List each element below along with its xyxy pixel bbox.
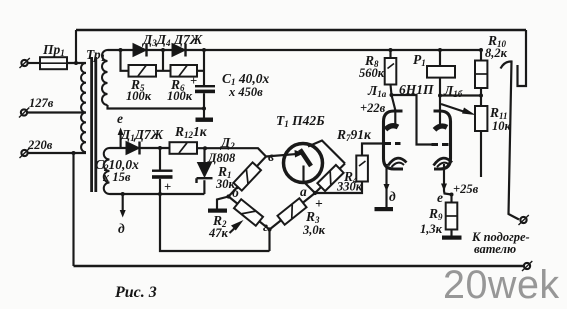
- svg-text:Рис. 3: Рис. 3: [114, 284, 157, 301]
- wire e arrow up: [118, 128, 124, 149]
- resistor R6: [171, 65, 198, 77]
- wire LV bottom tap: [110, 193, 205, 195]
- wire HV rail y50: [108, 49, 482, 51]
- resistor R4: [317, 165, 343, 191]
- wire R5 left drop: [121, 50, 129, 71]
- tube L1a grid: [385, 142, 401, 145]
- terminal 220v: [20, 148, 30, 158]
- ground C1: [196, 118, 214, 122]
- tube L1b cathode inner arc: [437, 163, 450, 167]
- resistor R8 leads: [391, 50, 392, 95]
- wire D1 to junction: [140, 147, 170, 149]
- transistor T1 emitter with arrow: [266, 150, 304, 158]
- svg-text:Д808: Д808: [207, 151, 236, 165]
- arrow R11 wiper: [441, 104, 476, 115]
- resistor R9: [446, 203, 458, 230]
- wire 127v tap: [27, 111, 86, 113]
- resistor R5: [129, 65, 157, 77]
- wire C2 bottom lead: [159, 179, 161, 194]
- wire R9 top lead: [450, 195, 452, 203]
- node a dot: [313, 191, 317, 195]
- wire inner return bottom: [160, 194, 270, 251]
- transformer Tr1 primary winding: [81, 63, 86, 152]
- ground at node b: [208, 197, 229, 213]
- svg-text:д: д: [118, 221, 125, 236]
- node R8 rail: [389, 48, 393, 52]
- svg-text:+22в: +22в: [360, 101, 386, 115]
- wire R4 corner to node a: [315, 164, 345, 194]
- resistor R12: [170, 142, 198, 154]
- wire La cathode lead with arrow: [384, 164, 390, 207]
- wire C1 bottom lead: [203, 93, 205, 117]
- terminal 127v: [19, 108, 29, 118]
- node relay rail: [438, 48, 442, 52]
- wire rail left drop to fuse node: [75, 30, 77, 63]
- wire R7 top to grid La: [362, 144, 384, 156]
- tube L1a envelope: [384, 111, 404, 169]
- svg-text:100к: 100к: [167, 89, 193, 103]
- transformer Tr1 secondary HV winding: [102, 50, 107, 105]
- svg-text:е: е: [437, 190, 443, 205]
- wire anode Lb to R10 junction: [440, 94, 481, 96]
- zener D2: [197, 148, 213, 183]
- terminal heater bottom: [522, 261, 532, 271]
- resistor R10: [475, 61, 487, 89]
- wire node a to R7 bottom: [315, 182, 362, 194]
- tube L1b anode: [435, 126, 448, 130]
- svg-text:R9: R9: [428, 206, 443, 222]
- node b dot: [226, 194, 230, 198]
- wire relay leads: [439, 50, 441, 126]
- wire bridge arm g-a: [270, 193, 316, 230]
- node d-arrow junction: [121, 192, 125, 196]
- resistor R11: [475, 106, 487, 131]
- svg-text:10к: 10к: [492, 119, 512, 133]
- capacitor C1: [195, 85, 215, 93]
- node D3 anode branch: [119, 48, 123, 52]
- wire HV loop bottom: [108, 105, 205, 109]
- svg-text:R791к: R791к: [336, 127, 372, 143]
- svg-text:127в: 127в: [29, 96, 54, 110]
- svg-text:R121к: R121к: [174, 124, 208, 140]
- ground cathode La: [375, 207, 394, 211]
- terminal mains-top: [20, 58, 30, 68]
- node R10 rail: [479, 48, 483, 52]
- svg-text:Д1Д7Ж: Д1Д7Ж: [119, 127, 164, 143]
- wire R10 top lead: [480, 50, 482, 61]
- resistor R3 (bridge arm g-a): [277, 198, 306, 224]
- node D1-C2 junction: [158, 146, 162, 150]
- svg-text:+25в: +25в: [453, 182, 479, 196]
- arrow R2 wiper: [230, 220, 244, 233]
- transistor T1 circle: [284, 144, 323, 183]
- node anode Lb tap: [438, 94, 442, 98]
- svg-text:д: д: [389, 189, 396, 204]
- tube L1a cathode inner arc: [392, 163, 405, 167]
- tube L1a anode: [386, 126, 399, 130]
- wire R9 bottom lead: [450, 230, 452, 236]
- transistor T1 base bar: [300, 150, 311, 167]
- node R10-R11 junction: [479, 94, 483, 98]
- wire C2 top lead: [159, 148, 161, 170]
- node D2 top: [203, 146, 207, 150]
- transformer Tr1 secondary LV winding: [104, 148, 110, 194]
- svg-text:Р1: Р1: [413, 52, 426, 68]
- relay contact P1 moving arm: [501, 61, 520, 219]
- wire terminal to fuse: [28, 62, 40, 64]
- resistor R2 (bridge arm b-g): [234, 199, 263, 226]
- svg-text:+: +: [315, 196, 323, 211]
- tube L1b envelope: [434, 111, 451, 169]
- ground R9: [442, 236, 462, 240]
- svg-text:Л1б: Л1б: [443, 83, 463, 99]
- wire d arrow down: [120, 194, 126, 218]
- wire fuse to transformer primary: [67, 62, 86, 64]
- diode D4: [172, 44, 186, 57]
- svg-text:е: е: [117, 111, 123, 126]
- node fuse-rail junction: [74, 61, 78, 65]
- svg-text:560к: 560к: [359, 66, 385, 80]
- resistor R8: [385, 58, 397, 85]
- tube L1b grid: [432, 143, 451, 146]
- node C2 bottom junction: [158, 192, 162, 196]
- svg-text:Д2: Д2: [219, 135, 235, 151]
- wire R6 right to C1 lead: [197, 70, 204, 72]
- diode D1: [126, 142, 140, 155]
- svg-text:а: а: [300, 184, 307, 199]
- node g dot: [267, 227, 271, 231]
- node D3-D4 mid branch: [161, 48, 165, 52]
- wire bridge arm b-v: [229, 157, 267, 197]
- svg-text:+: +: [164, 180, 171, 194]
- capacitor C2: [152, 170, 173, 179]
- svg-text:х 15в: х 15в: [102, 170, 131, 184]
- tube L1a cathode: [388, 158, 407, 165]
- wire bottom rail: [74, 265, 524, 268]
- svg-text:г: г: [263, 219, 268, 234]
- svg-text:47к: 47к: [208, 226, 229, 240]
- wire R5-R6 link: [156, 50, 171, 71]
- node anode La / R8: [390, 93, 394, 97]
- wire bridge arm b-g: [229, 197, 270, 230]
- wire left vertical to bottom rail: [72, 153, 74, 266]
- svg-text:100к: 100к: [126, 89, 152, 103]
- wire LV top tap: [110, 147, 127, 149]
- svg-text:Пр1: Пр1: [42, 42, 65, 58]
- wire top rail: [76, 29, 526, 32]
- svg-text:вателю: вателю: [474, 242, 516, 256]
- svg-text:220в: 220в: [27, 138, 53, 152]
- transformer Tr1 core: [90, 57, 97, 192]
- wire 220v tap: [28, 152, 86, 154]
- relay contact P1 fixed contact: [518, 30, 527, 86]
- resistor R1 (bridge arm b-v): [233, 162, 261, 190]
- wire R12 to D2 and bridge: [197, 148, 266, 156]
- wire g down to inner return: [268, 230, 270, 252]
- node 220v junction: [72, 151, 76, 155]
- fuse Pr1: [36, 57, 71, 69]
- svg-text:х 450в: х 450в: [228, 85, 263, 99]
- node e +25v: [450, 193, 454, 197]
- svg-text:3,0к: 3,0к: [302, 223, 326, 237]
- svg-text:1,3к: 1,3к: [420, 222, 443, 236]
- wire R10 bottom lead: [480, 88, 482, 106]
- wire Lb cathode lead with arrow: [441, 164, 452, 195]
- wire coupling R8 to grid Lb: [392, 95, 432, 145]
- wire La anode lead: [392, 95, 396, 125]
- node C1 loop junction: [202, 107, 206, 111]
- relay P1: [427, 66, 455, 78]
- terminal heater top: [519, 215, 529, 225]
- resistor R7: [356, 156, 368, 182]
- wire C1 top lead: [203, 50, 205, 85]
- svg-text:30к: 30к: [215, 177, 236, 191]
- node D4 cathode / C1 top: [202, 48, 206, 52]
- wire T1 base lead to R4 top corner: [308, 141, 345, 164]
- svg-text:8,2к: 8,2к: [485, 46, 508, 60]
- svg-text:20wek: 20wek: [443, 263, 560, 307]
- tube L1b cathode: [434, 158, 453, 165]
- wire up to D2 cathode: [203, 180, 205, 194]
- svg-text:Т1 П42Б: Т1 П42Б: [276, 113, 325, 129]
- diode D3: [133, 44, 147, 57]
- transistor T1 collector: [304, 166, 316, 194]
- wire R11 bottom stub to +25v net: [480, 131, 482, 177]
